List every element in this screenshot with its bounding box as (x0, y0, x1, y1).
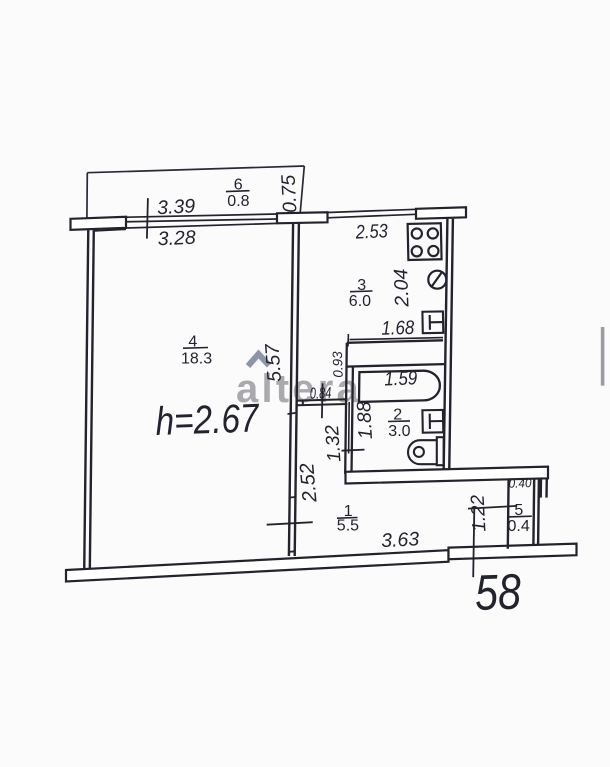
svg-text:3.63: 3.63 (381, 528, 420, 552)
svg-text:0.75: 0.75 (278, 174, 302, 213)
svg-text:0.8: 0.8 (227, 193, 249, 210)
svg-text:h=2.67: h=2.67 (155, 396, 261, 444)
svg-text:2.52: 2.52 (296, 462, 321, 504)
svg-text:0.84: 0.84 (310, 385, 332, 403)
svg-text:6.0: 6.0 (349, 293, 371, 310)
svg-text:0.40: 0.40 (508, 476, 532, 491)
svg-text:2.04: 2.04 (390, 268, 413, 308)
svg-text:1.68: 1.68 (381, 317, 415, 340)
svg-text:58: 58 (474, 563, 522, 621)
svg-text:5.57: 5.57 (261, 342, 286, 383)
svg-text:1.22: 1.22 (468, 494, 491, 532)
svg-text:3.0: 3.0 (388, 423, 410, 440)
svg-text:18.3: 18.3 (181, 350, 212, 367)
svg-text:5.5: 5.5 (337, 518, 359, 535)
svg-text:3.28: 3.28 (157, 227, 196, 251)
svg-text:0.4: 0.4 (508, 518, 530, 535)
svg-text:1.32: 1.32 (322, 424, 346, 463)
svg-text:1.59: 1.59 (384, 367, 418, 390)
svg-text:1.88: 1.88 (353, 401, 377, 440)
svg-text:2.53: 2.53 (354, 220, 388, 243)
svg-text:3.39: 3.39 (157, 195, 196, 219)
svg-text:0.93: 0.93 (330, 351, 346, 378)
